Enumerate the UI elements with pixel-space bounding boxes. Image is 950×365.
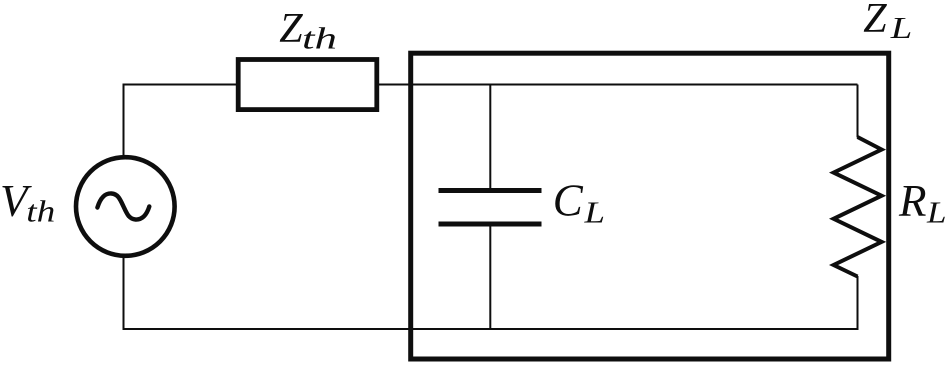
svg-text:C: C (553, 175, 584, 225)
svg-text:th: th (302, 21, 337, 56)
svg-text:th: th (26, 194, 55, 229)
svg-text:Z: Z (863, 0, 887, 42)
svg-text:L: L (890, 10, 913, 45)
svg-text:R: R (898, 176, 927, 226)
svg-text:L: L (583, 195, 605, 230)
svg-text:L: L (926, 195, 947, 230)
svg-text:Z: Z (279, 6, 303, 52)
